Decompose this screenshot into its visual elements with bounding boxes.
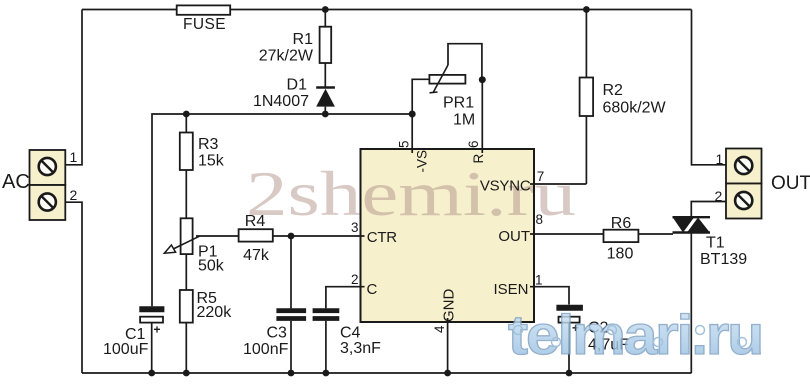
- watermark telmari.ru: [508, 303, 762, 366]
- resistor R6: [604, 230, 674, 242]
- svg-text:C4: C4: [340, 325, 361, 342]
- junction: top rail / R1: [322, 6, 329, 13]
- svg-text:680k/2W: 680k/2W: [603, 100, 667, 117]
- wire: top rail: [82, 9, 692, 11]
- svg-text:R1: R1: [293, 31, 314, 48]
- junction: mid rail / D1: [322, 111, 329, 118]
- svg-text:6: 6: [466, 140, 481, 148]
- svg-text:2: 2: [70, 187, 78, 203]
- resistor R5: [180, 290, 193, 373]
- preset PR1: [429, 44, 482, 93]
- IC U1 body: [361, 149, 535, 322]
- triac T1: [673, 217, 711, 232]
- svg-text:D1: D1: [287, 77, 308, 94]
- svg-text:AC: AC: [2, 171, 30, 193]
- wire: pin 4 GND lead: [447, 318, 449, 373]
- fuse FUSE: [177, 5, 231, 14]
- svg-text:4: 4: [432, 325, 447, 333]
- junction: bottom rail / C1: [148, 370, 155, 377]
- svg-text:1: 1: [535, 273, 543, 288]
- junction: R4 / C3 / pin3: [288, 233, 295, 240]
- resistor R3: [180, 114, 193, 218]
- junction: top rail / R2: [583, 6, 590, 13]
- svg-text:R4: R4: [245, 213, 266, 230]
- wire: AC pin2 down to bottom rail: [65, 202, 82, 373]
- wire: bottom rail: [82, 372, 692, 374]
- junction: mid rail / pin5 wire: [409, 111, 416, 118]
- svg-text:1: 1: [70, 149, 78, 165]
- resistor R1: [320, 10, 332, 87]
- junction: bottom rail / R5: [183, 370, 190, 377]
- svg-text:C: C: [367, 281, 378, 298]
- capacitor C2: [556, 308, 583, 373]
- svg-text:100uF: 100uF: [103, 341, 149, 358]
- svg-text:T1: T1: [706, 235, 725, 252]
- terminal block OUT: [726, 149, 762, 219]
- potentiometer P1: [164, 218, 199, 290]
- svg-text:220k: 220k: [197, 304, 233, 321]
- svg-text:7: 7: [537, 169, 545, 184]
- svg-text:PR1: PR1: [443, 95, 474, 112]
- svg-text:2: 2: [351, 272, 359, 287]
- svg-text:47k: 47k: [243, 247, 270, 264]
- wire: top rail to OUT pin 1: [692, 10, 727, 165]
- svg-text:1M: 1M: [453, 112, 475, 129]
- svg-text:15k: 15k: [198, 153, 225, 170]
- svg-text:CTR: CTR: [367, 229, 397, 246]
- svg-text:C3: C3: [267, 325, 288, 342]
- wire: pin 8 lead: [530, 233, 604, 235]
- wire: mid rail from C1 drop to pin5 node: [152, 114, 412, 306]
- junction: mid rail / R3: [183, 111, 190, 118]
- svg-text:FUSE: FUSE: [183, 16, 226, 33]
- svg-text:27k/2W: 27k/2W: [259, 48, 314, 65]
- svg-text:VSYNC: VSYNC: [480, 178, 531, 195]
- svg-text:8: 8: [536, 212, 544, 227]
- svg-text:OUT: OUT: [771, 173, 810, 194]
- svg-text:R2: R2: [603, 82, 624, 99]
- wire: T1 MT1 to bottom rail: [690, 233, 692, 374]
- terminal block AC: [30, 150, 66, 220]
- diode D1: [316, 88, 335, 115]
- capacitor C3: [276, 236, 306, 373]
- svg-text:ISEN: ISEN: [493, 281, 528, 298]
- wire: T1 MT2 to OUT pin 2: [691, 202, 726, 218]
- wire: P1 wiper to R4: [196, 235, 239, 237]
- svg-text:50k: 50k: [198, 258, 225, 275]
- svg-text:3,3nF: 3,3nF: [340, 340, 381, 357]
- resistor R2: [580, 10, 594, 185]
- wire: pin 5 lead from PR1 left: [412, 79, 429, 153]
- svg-text:R3: R3: [198, 136, 219, 153]
- wire: pin 7 lead: [530, 183, 586, 185]
- wire: pin 2 lead to C4: [326, 287, 365, 309]
- wire: left rail AC pin1 to top rail: [65, 10, 82, 165]
- junction: bottom rail / GND pin 4: [444, 370, 451, 377]
- svg-text:3: 3: [351, 220, 359, 235]
- IC U1 border: [361, 149, 535, 322]
- svg-text:telmari.ru: telmari.ru: [508, 303, 762, 366]
- svg-text:1: 1: [716, 151, 724, 167]
- svg-text:GND: GND: [441, 289, 458, 323]
- junction: PR1 right / pin6: [479, 76, 486, 83]
- svg-text:BT139: BT139: [700, 251, 747, 268]
- svg-text:1N4007: 1N4007: [253, 93, 309, 110]
- svg-text:2: 2: [715, 188, 723, 204]
- junction: bottom rail / C4: [323, 370, 330, 377]
- svg-text:+: +: [154, 323, 161, 337]
- junction: bottom rail / C2: [566, 370, 573, 377]
- svg-text:-VS: -VS: [415, 150, 430, 173]
- wire: pin 6 lead from PR1 right: [481, 80, 483, 153]
- svg-text:R: R: [471, 154, 486, 164]
- svg-text:180: 180: [607, 246, 634, 263]
- svg-text:OUT: OUT: [498, 228, 530, 245]
- wire: pin 1 ISEN lead to C2: [530, 287, 569, 305]
- svg-text:5: 5: [397, 140, 412, 148]
- capacitor C4: [313, 311, 340, 373]
- capacitor C1: [139, 309, 164, 373]
- resistor R4: [239, 229, 365, 241]
- junction: bottom rail / C3: [288, 370, 295, 377]
- svg-text:100nF: 100nF: [243, 341, 289, 358]
- svg-text:R6: R6: [611, 215, 632, 232]
